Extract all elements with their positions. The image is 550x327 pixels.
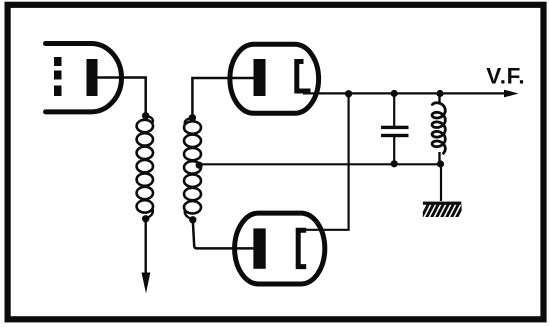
svg-text:V.F.: V.F. (486, 63, 525, 88)
